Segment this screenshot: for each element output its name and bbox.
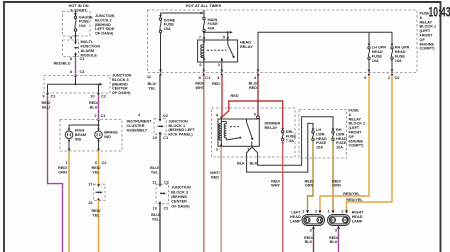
svg-text:FUSE: FUSE xyxy=(349,109,360,113)
svg-text:WHT: WHT xyxy=(271,184,280,188)
gauge fuse xyxy=(74,11,76,36)
dimmer relay coils xyxy=(220,119,222,146)
svg-text:RED/: RED/ xyxy=(304,179,314,183)
label BLU/YEL lower xyxy=(151,213,161,221)
svg-text:10A: 10A xyxy=(79,24,86,28)
wire BLU/YEL lower xyxy=(159,204,161,252)
svg-text:BLOCK 1: BLOCK 1 xyxy=(420,25,437,29)
junction block 3 dashed box xyxy=(44,76,110,94)
svg-text:LEFT SIDE: LEFT SIDE xyxy=(95,27,115,31)
svg-text:OF DASH): OF DASH) xyxy=(171,204,190,208)
svg-text:RED/: RED/ xyxy=(41,101,51,105)
svg-text:(LEFT: (LEFT xyxy=(349,126,360,130)
svg-text:ORN: ORN xyxy=(305,184,314,188)
svg-text:RED/: RED/ xyxy=(195,82,205,86)
DRL fuse xyxy=(281,128,284,131)
svg-text:17: 17 xyxy=(88,182,92,187)
relay output stubs xyxy=(204,62,222,73)
label RED/WHT drl xyxy=(271,179,281,187)
svg-text:INSTRUMENT: INSTRUMENT xyxy=(127,120,153,124)
label RED/YEL lower xyxy=(91,209,101,217)
svg-text:HOT AT ALL TIMES: HOT AT ALL TIMES xyxy=(186,3,222,8)
svg-text:FRONT: FRONT xyxy=(349,131,363,135)
svg-text:FUSE: FUSE xyxy=(286,135,297,139)
svg-text:RH: RH xyxy=(336,128,342,132)
dimmer relay dashed box xyxy=(212,108,296,157)
head relay switch xyxy=(222,40,234,62)
dimmer relay link xyxy=(230,126,240,128)
svg-text:JUNCTION: JUNCTION xyxy=(171,186,191,190)
svg-text:10A: 10A xyxy=(316,146,323,150)
head relay link xyxy=(207,49,227,51)
svg-text:GAUGE: GAUGE xyxy=(79,15,93,19)
JB3 internal bus xyxy=(48,78,100,93)
svg-text:JUNCTION: JUNCTION xyxy=(168,119,188,123)
pins 9 C1 / 10 C2 xyxy=(42,94,106,99)
svg-text:FUSE: FUSE xyxy=(79,20,90,24)
svg-text:RED/: RED/ xyxy=(91,166,101,170)
svg-text:RELAY: RELAY xyxy=(265,125,278,130)
svg-text:FUSE: FUSE xyxy=(316,141,327,145)
pins 7 / 5 xyxy=(199,35,226,40)
svg-text:BLOCK 2: BLOCK 2 xyxy=(95,18,112,22)
svg-text:JUNCTION: JUNCTION xyxy=(95,14,115,18)
wire RED/YEL LH UPR to left lamp pin2 xyxy=(320,76,369,211)
pin 2 C1 xyxy=(94,113,106,118)
svg-text:RH UPR: RH UPR xyxy=(395,46,410,50)
svg-text:RED: RED xyxy=(231,94,239,98)
wire RED/BLU alarm to JB3 xyxy=(75,57,77,76)
bottom edge connector arrows xyxy=(159,70,162,76)
svg-text:RELAY: RELAY xyxy=(420,20,433,24)
svg-text:RED/: RED/ xyxy=(329,236,339,240)
svg-text:MAIN: MAIN xyxy=(208,18,218,22)
svg-text:OF: OF xyxy=(420,38,426,42)
svg-text:CENTER: CENTER xyxy=(112,87,128,91)
svg-text:YEL: YEL xyxy=(92,171,100,175)
dimmer relay pins 4 / 3 xyxy=(216,112,257,118)
svg-text:RIGHT: RIGHT xyxy=(352,211,364,215)
svg-text:BLU: BLU xyxy=(42,106,50,110)
block 1 label xyxy=(420,12,437,51)
svg-text:BLU/: BLU/ xyxy=(249,82,259,86)
cluster internal wiring xyxy=(69,122,99,149)
svg-text:FUSE: FUSE xyxy=(208,22,219,26)
svg-text:40A: 40A xyxy=(208,27,215,31)
label RED/ORN rh xyxy=(332,179,342,187)
svg-text:LAMP: LAMP xyxy=(352,219,363,223)
svg-text:BLU/: BLU/ xyxy=(150,166,160,170)
svg-text:BLOCK 3: BLOCK 3 xyxy=(171,190,188,194)
svg-text:HEAD: HEAD xyxy=(372,50,383,54)
label BLU/YEL middle xyxy=(150,166,160,174)
svg-text:ENGINE: ENGINE xyxy=(420,42,435,46)
wire RED/BLU left branch xyxy=(48,96,63,252)
svg-text:&: & xyxy=(349,113,352,117)
high beam indicator bulb xyxy=(65,131,73,139)
junction block 3 label xyxy=(112,74,132,96)
svg-text:LH: LH xyxy=(316,128,321,132)
main fuse label xyxy=(208,18,219,31)
wire RED relay pin3 to dimmer xyxy=(221,76,223,118)
svg-text:RED/YEL: RED/YEL xyxy=(346,198,363,202)
wire RED/ORN cluster pin1 down xyxy=(68,151,70,252)
svg-text:IND: IND xyxy=(104,135,111,139)
LH LWR head fuse xyxy=(312,128,315,131)
junction block 1 label xyxy=(168,119,195,136)
svg-text:DRL: DRL xyxy=(286,130,294,134)
svg-text:OF DASH): OF DASH) xyxy=(95,32,114,36)
svg-text:(BEHIND: (BEHIND xyxy=(171,195,187,199)
junction block 3 lower label xyxy=(171,186,191,209)
multi-function alarm module xyxy=(63,40,79,57)
svg-text:RED/YEL: RED/YEL xyxy=(343,192,360,196)
block 2 label xyxy=(349,109,366,148)
label HOT IN ON & START xyxy=(68,3,88,12)
svg-text:BLK: BLK xyxy=(250,161,258,165)
wire RED/YEL RH UPR to right lamp pin2 xyxy=(347,76,393,211)
svg-text:ALARM: ALARM xyxy=(81,49,95,53)
dimmer relay switch xyxy=(247,119,253,146)
svg-text:YEL: YEL xyxy=(151,171,159,175)
svg-text:RELAY: RELAY xyxy=(240,44,253,49)
RH LWR head fuse xyxy=(332,128,335,131)
svg-text:COMPT): COMPT) xyxy=(420,47,436,51)
svg-text:BLU: BLU xyxy=(90,106,98,110)
svg-text:10A: 10A xyxy=(372,59,379,63)
brake indicator bulb xyxy=(95,131,103,139)
svg-text:RED/: RED/ xyxy=(91,209,101,213)
head relay box xyxy=(198,40,238,62)
svg-text:10:43: 10:43 xyxy=(429,4,450,20)
svg-text:OF: OF xyxy=(349,135,355,139)
pins 6 / 3 below relay xyxy=(199,62,220,67)
svg-text:(BEHIND: (BEHIND xyxy=(95,23,111,27)
instrument cluster dashed box xyxy=(60,120,122,152)
svg-text:BLK: BLK xyxy=(305,240,313,244)
pins 1 / 6 C2 xyxy=(65,160,107,165)
svg-text:HEAD: HEAD xyxy=(395,50,406,54)
svg-text:BRAKE: BRAKE xyxy=(104,131,118,135)
wire RED/ORN LH LWR to left lamp pin1 xyxy=(308,141,314,211)
wire RED/BLU right branch xyxy=(98,96,100,120)
svg-text:RED/: RED/ xyxy=(58,166,68,170)
svg-text:OF DASH): OF DASH) xyxy=(112,91,131,95)
dome fuse xyxy=(159,15,162,18)
cluster label xyxy=(127,120,153,133)
left headlamp pins xyxy=(302,208,318,232)
svg-text:BLOCK 3: BLOCK 3 xyxy=(112,78,129,82)
junction main fuse to relay xyxy=(203,31,205,33)
bottom edge pin labels xyxy=(147,74,400,80)
wire RED/BLK left lamp ground xyxy=(313,229,315,252)
wire WHT/RED dimmer pin2 down xyxy=(220,146,222,252)
svg-text:ENGINE: ENGINE xyxy=(349,139,364,143)
junction block 3 lower connector xyxy=(152,180,170,185)
svg-text:RED/: RED/ xyxy=(271,179,281,183)
svg-text:C0: C0 xyxy=(395,75,400,80)
high beam ind label xyxy=(75,129,86,142)
label RED/BLU lamp xyxy=(329,236,339,244)
wire BLU/YEL from pin 11 xyxy=(159,76,161,120)
svg-text:RED: RED xyxy=(212,82,220,86)
label RED/BLK xyxy=(304,236,314,244)
svg-text:RED/: RED/ xyxy=(89,101,99,105)
svg-text:FUNCTION: FUNCTION xyxy=(81,45,101,49)
label WHT/RED xyxy=(210,171,221,179)
right headlamp label xyxy=(352,211,364,224)
alarm module label xyxy=(81,40,101,57)
svg-text:C2: C2 xyxy=(102,160,108,165)
svg-text:C3: C3 xyxy=(80,69,86,74)
svg-text:FUSE: FUSE xyxy=(164,23,175,27)
wire RED/ORN RH LWR to right lamp pin1 xyxy=(332,141,334,211)
svg-text:10: 10 xyxy=(153,206,157,211)
inline connector 17/16 xyxy=(94,184,106,200)
svg-text:HEAD: HEAD xyxy=(352,215,363,219)
svg-text:C1: C1 xyxy=(101,113,107,118)
wire RED below DRL fuse xyxy=(282,141,284,252)
svg-text:(BEHIND LEFT: (BEHIND LEFT xyxy=(168,128,195,132)
svg-text:ASSEMBLY: ASSEMBLY xyxy=(127,128,148,132)
wire BLU/RED block1 pin4 to dimmer xyxy=(257,76,259,116)
svg-text:BLK: BLK xyxy=(237,161,245,165)
right headlamp xyxy=(328,215,351,226)
dome fuse label xyxy=(164,18,176,31)
head relay label xyxy=(240,40,253,50)
main feed bus xyxy=(161,10,205,17)
main fuse xyxy=(203,17,205,40)
svg-text:LH UPR: LH UPR xyxy=(372,46,386,50)
svg-text:JUNCTION: JUNCTION xyxy=(112,74,132,78)
head relay coil xyxy=(203,40,205,62)
label RED/WHT xyxy=(195,82,205,90)
pin 8 C1 xyxy=(70,56,85,61)
svg-text:LWR: LWR xyxy=(336,132,345,136)
pin 8 C3 xyxy=(70,69,85,74)
svg-text:BLOCK 2: BLOCK 2 xyxy=(349,122,366,126)
svg-text:C2: C2 xyxy=(163,113,169,118)
svg-text:COMPT): COMPT) xyxy=(349,144,365,148)
svg-text:FRONT: FRONT xyxy=(420,34,434,38)
svg-text:YEL: YEL xyxy=(148,87,156,91)
svg-text:(LEFT: (LEFT xyxy=(420,29,431,33)
dimmer relay pins 2 / 1 xyxy=(216,146,250,152)
svg-text:LAMP: LAMP xyxy=(290,219,301,223)
wire RED branch to DRL fuse xyxy=(222,101,283,129)
svg-text:10A: 10A xyxy=(395,59,402,63)
left headlamp label xyxy=(290,211,301,224)
label RED/ORN xyxy=(58,166,68,174)
svg-text:BEAM: BEAM xyxy=(75,133,86,137)
wire RED/YEL cluster pin6 down xyxy=(98,151,100,184)
RH UPR head fuse xyxy=(391,32,393,44)
svg-text:LEFT: LEFT xyxy=(291,211,301,215)
svg-text:15A: 15A xyxy=(164,27,171,31)
svg-text:FUSE: FUSE xyxy=(420,12,431,16)
label RED/ORN lh xyxy=(304,179,314,187)
svg-text:YEL: YEL xyxy=(92,214,100,218)
svg-text:ORN: ORN xyxy=(58,171,67,175)
svg-text:(BEHIND: (BEHIND xyxy=(112,82,128,86)
svg-text:BLU/: BLU/ xyxy=(151,213,161,217)
svg-text:MULTI-: MULTI- xyxy=(81,40,94,44)
svg-text:HIGH: HIGH xyxy=(75,129,85,133)
svg-text:RED/: RED/ xyxy=(304,236,314,240)
junction block 2 dashed box xyxy=(63,12,91,37)
svg-text:C1: C1 xyxy=(51,94,57,99)
svg-text:BLOCK 1: BLOCK 1 xyxy=(168,124,185,128)
svg-text:7: 7 xyxy=(199,35,201,40)
svg-text:RED: RED xyxy=(249,86,257,90)
dimmer relay label xyxy=(265,120,281,130)
svg-text:LWR: LWR xyxy=(316,132,325,136)
junction block 2 label xyxy=(95,14,115,36)
svg-text:CENTER: CENTER xyxy=(171,200,187,204)
svg-text:7.5A: 7.5A xyxy=(286,139,294,143)
svg-text:YEL: YEL xyxy=(152,217,160,221)
svg-text:10: 10 xyxy=(153,135,157,140)
wire BLK pair from dimmer pin1 xyxy=(247,123,313,172)
svg-text:HEAD: HEAD xyxy=(336,137,347,141)
label RED/BLU left xyxy=(41,101,51,109)
wire RED/WHT relay pin6 down xyxy=(203,76,205,252)
svg-text:C1: C1 xyxy=(164,206,170,211)
svg-text:CLUSTER: CLUSTER xyxy=(127,124,145,128)
svg-text:ORN: ORN xyxy=(332,184,341,188)
svg-text:BLU/: BLU/ xyxy=(148,82,158,86)
svg-text:FUSE: FUSE xyxy=(336,141,347,145)
bus to upper head fuses xyxy=(258,32,392,72)
svg-text:C1: C1 xyxy=(205,75,211,80)
label BLU/RED xyxy=(249,82,259,90)
label RED/YEL xyxy=(91,166,101,174)
junction block 1 connector xyxy=(138,112,169,118)
right headlamp pins xyxy=(328,208,345,232)
svg-text:RED: RED xyxy=(211,176,219,180)
wire fuse to alarm module xyxy=(75,36,77,40)
dimmer relay inner box xyxy=(218,119,259,146)
svg-text:HEAD: HEAD xyxy=(316,137,327,141)
svg-text:WHT: WHT xyxy=(195,86,204,90)
svg-text:10: 10 xyxy=(90,94,94,99)
svg-text:C1: C1 xyxy=(80,56,86,61)
svg-text:FUSE: FUSE xyxy=(372,54,383,58)
wire RED/BLU right lamp ground xyxy=(338,229,340,252)
svg-text:HEAD: HEAD xyxy=(290,215,301,219)
svg-text:IND: IND xyxy=(75,138,82,142)
gauge fuse label xyxy=(79,15,93,28)
left headlamp xyxy=(302,215,325,226)
svg-text:RELAY: RELAY xyxy=(349,117,362,121)
svg-text:DOME: DOME xyxy=(164,18,176,22)
fuse/relay block 1 dashed box xyxy=(148,10,418,73)
wire RED/YEL below connector xyxy=(98,201,100,252)
brake ind label xyxy=(104,131,118,139)
DRL fuse label xyxy=(286,130,297,143)
labels BLK BLK xyxy=(237,161,258,165)
svg-text:&: & xyxy=(420,16,423,20)
svg-text:WHT/: WHT/ xyxy=(210,171,221,175)
svg-text:FUSE: FUSE xyxy=(395,54,406,58)
LH UPR head fuse xyxy=(368,32,370,44)
svg-text:RED/: RED/ xyxy=(332,179,342,183)
svg-text:KICK PANEL): KICK PANEL) xyxy=(168,133,193,137)
label BLU/YEL xyxy=(148,82,158,90)
svg-text:C2: C2 xyxy=(101,94,107,99)
svg-text:BLU: BLU xyxy=(330,240,338,244)
wire BLU/YEL middle xyxy=(159,134,161,184)
fuse/relay block 2 dashed box xyxy=(299,110,347,159)
svg-text:10A: 10A xyxy=(336,146,343,150)
svg-text:RED/BLU: RED/BLU xyxy=(54,62,71,66)
label RED/BLU right xyxy=(89,101,99,109)
